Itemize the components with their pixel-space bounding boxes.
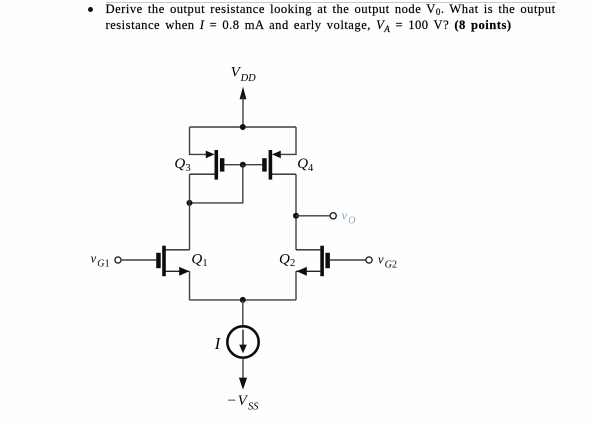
wire Q2 source down bbox=[295, 271, 297, 300]
label vO bbox=[342, 209, 356, 227]
svg-text:Q: Q bbox=[174, 156, 185, 172]
svg-text:G: G bbox=[97, 258, 104, 269]
transistor Q1 (NMOS) bbox=[156, 246, 207, 277]
power VDD label bbox=[231, 65, 257, 85]
current source I bbox=[214, 326, 259, 357]
svg-text:4: 4 bbox=[308, 163, 314, 174]
wire vG1 to Q1 gate bbox=[121, 259, 156, 261]
svg-text:DD: DD bbox=[240, 73, 257, 84]
node gate junction dot bbox=[240, 162, 246, 168]
question text line 2 bbox=[106, 18, 512, 33]
wire current source to -VSS bbox=[242, 358, 244, 381]
svg-text:O: O bbox=[348, 216, 355, 227]
svg-text:V: V bbox=[238, 393, 249, 409]
wire vO tap bbox=[296, 215, 330, 217]
label vG2 bbox=[378, 252, 397, 270]
svg-text:1: 1 bbox=[105, 258, 110, 269]
wire left rail down to Q3 source bbox=[190, 127, 209, 154]
transistor Q3 (PMOS) bbox=[174, 150, 224, 180]
power -VSS label bbox=[228, 393, 260, 412]
terminal vO circle bbox=[330, 213, 336, 219]
wire top rail bbox=[190, 126, 297, 128]
svg-text:3: 3 bbox=[185, 163, 190, 174]
wire gate node down and left to Q3 drain bbox=[190, 165, 243, 203]
transistor Q2 (NMOS) bbox=[279, 246, 330, 277]
node vO junction dot bbox=[293, 213, 299, 219]
power -VSS arrow symbol bbox=[239, 378, 247, 390]
question text line 1 bbox=[106, 2, 556, 17]
svg-text:2: 2 bbox=[290, 258, 295, 269]
wire tail rail bbox=[190, 299, 297, 301]
svg-text:I: I bbox=[214, 334, 222, 353]
power VDD arrow symbol bbox=[240, 87, 247, 127]
svg-text:Q: Q bbox=[297, 156, 308, 172]
top rule line bbox=[106, 2, 556, 3]
svg-text:v: v bbox=[91, 251, 97, 265]
wire right drain vertical bbox=[295, 174, 297, 250]
svg-text:2: 2 bbox=[392, 259, 397, 270]
wire right rail down to Q4 source bbox=[278, 127, 297, 154]
wire tail down to current source bbox=[242, 300, 244, 327]
bullet bbox=[88, 7, 93, 12]
terminal vG2 circle bbox=[366, 257, 372, 263]
node tail junction dot bbox=[240, 297, 246, 303]
transistor Q4 (PMOS) bbox=[262, 150, 314, 180]
wire gate bus Q3-Q4 bbox=[224, 164, 262, 166]
svg-text:v: v bbox=[342, 209, 348, 223]
svg-text:1: 1 bbox=[202, 258, 207, 269]
wire Q2 gate to vG2 bbox=[330, 259, 366, 261]
wire Q1 source down bbox=[189, 271, 191, 300]
node Q3 drain junction dot bbox=[187, 200, 193, 206]
wire left drain vertical bbox=[189, 174, 191, 250]
terminal vG1 circle bbox=[115, 257, 121, 263]
svg-text:v: v bbox=[378, 252, 384, 266]
label vG1 bbox=[91, 251, 110, 269]
svg-text:G: G bbox=[385, 259, 392, 270]
node VDD junction dot bbox=[240, 124, 246, 130]
svg-text:Q: Q bbox=[279, 252, 290, 268]
svg-text:Q: Q bbox=[191, 252, 202, 268]
svg-text:SS: SS bbox=[248, 402, 259, 413]
svg-text:−: − bbox=[228, 393, 236, 409]
